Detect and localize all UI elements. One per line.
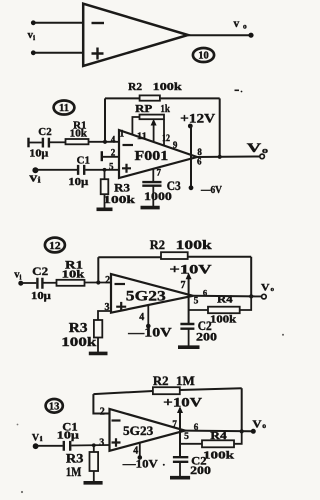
resistor R2 bbox=[140, 95, 160, 100]
svg-text:100k: 100k bbox=[153, 81, 183, 93]
supply -6V terminal dot bbox=[189, 185, 194, 190]
svg-text:7: 7 bbox=[172, 419, 177, 429]
svg-text:5: 5 bbox=[184, 432, 189, 442]
wire U3 output bbox=[193, 295, 262, 298]
svg-text:R4: R4 bbox=[210, 431, 227, 442]
node feedback-output junction bbox=[218, 155, 222, 159]
stray scan mark left margin bbox=[17, 424, 19, 426]
op-amp U3 bbox=[111, 274, 193, 313]
svg-text:7: 7 bbox=[157, 168, 162, 178]
svg-text:10μ: 10μ bbox=[31, 290, 52, 302]
node R3 junction bbox=[92, 443, 96, 447]
stray scan dot after -10V bbox=[163, 464, 165, 466]
node vo terminal ring bbox=[260, 154, 265, 159]
wire feedback top bbox=[98, 256, 251, 258]
node vo terminal ring bbox=[262, 294, 267, 299]
wire feedback left vertical bbox=[104, 98, 106, 141]
figure number 13 bbox=[46, 399, 63, 413]
RP wiper arrowhead bbox=[151, 119, 157, 126]
svg-text:10μ: 10μ bbox=[68, 177, 88, 188]
svg-text:R2: R2 bbox=[128, 81, 142, 93]
svg-text:—10V: —10V bbox=[127, 325, 172, 340]
supply -10V terminal dot bbox=[146, 324, 151, 329]
wire feedback top bbox=[93, 388, 241, 394]
wire vi to C2 bbox=[21, 282, 37, 284]
wire U4 output bbox=[185, 430, 251, 433]
node vi terminal bbox=[33, 443, 39, 449]
svg-text:o: o bbox=[243, 22, 247, 31]
svg-text:RP: RP bbox=[135, 104, 152, 115]
svg-text:5: 5 bbox=[194, 297, 199, 307]
node feedback junction bbox=[96, 280, 100, 284]
ground of R3 bbox=[84, 481, 103, 485]
resistor R2 bbox=[161, 252, 188, 259]
wire +12V / -6V supply vertical bbox=[190, 126, 192, 188]
stray scan mark near R2 bbox=[235, 89, 240, 91]
node vo terminal bbox=[251, 429, 256, 434]
wire vi to C1 bbox=[37, 445, 63, 447]
op-amp U4 bbox=[110, 409, 186, 451]
node output junction bbox=[240, 429, 244, 433]
wire C2 to ground bbox=[179, 462, 181, 477]
svg-text:1000: 1000 bbox=[144, 189, 172, 203]
svg-text:o: o bbox=[262, 422, 266, 430]
wire R4 branch left bbox=[180, 443, 202, 445]
resistor R1 bbox=[57, 280, 85, 286]
svg-text:R2: R2 bbox=[150, 237, 165, 252]
wire input to C2 bbox=[29, 142, 42, 144]
wire RP right end to U2 pin 12 bbox=[163, 119, 165, 145]
pin 2 terminal tick bbox=[101, 151, 103, 161]
node vo terminal bbox=[248, 33, 253, 38]
figure number 10 bbox=[193, 48, 214, 62]
node vi terminal bbox=[32, 167, 38, 173]
svg-text:10μ: 10μ bbox=[57, 431, 79, 442]
wire +10V to U4 pin7 and pin5 compensation vertical bbox=[179, 408, 181, 457]
wire feedback right vertical bbox=[241, 388, 243, 431]
svg-text:i: i bbox=[40, 435, 43, 443]
figure number 12 bbox=[45, 238, 65, 253]
svg-text:V: V bbox=[247, 140, 262, 155]
svg-text:+12V: +12V bbox=[180, 110, 216, 125]
wire U2 output bbox=[197, 156, 260, 159]
svg-text:100k: 100k bbox=[203, 449, 235, 461]
ground of C2 bbox=[170, 476, 190, 480]
svg-text:2: 2 bbox=[100, 406, 105, 417]
ground of C2 bbox=[178, 345, 200, 349]
wire U3 pin4 bbox=[147, 305, 149, 326]
resistor R4 bbox=[208, 307, 240, 314]
wire feedback top bbox=[105, 97, 220, 99]
wire R3 to ground bbox=[97, 338, 99, 353]
wire C2 to ground bbox=[188, 329, 190, 347]
svg-text:+10V: +10V bbox=[163, 396, 202, 410]
wire C3 to ground bbox=[152, 186, 154, 207]
wire pin 2 stub bbox=[102, 156, 119, 158]
wire R4 to output bbox=[234, 431, 242, 443]
wire C1 to U2 pin5 bbox=[85, 169, 119, 171]
op-amp U2 plus symbol bbox=[122, 164, 131, 173]
svg-text:10k: 10k bbox=[70, 129, 88, 140]
svg-text:3: 3 bbox=[99, 438, 104, 449]
potentiometer RP bbox=[140, 115, 165, 120]
ground of R3 bbox=[89, 352, 108, 356]
svg-text:—10V: —10V bbox=[122, 456, 158, 470]
+10V arrowhead bbox=[186, 273, 192, 280]
resistor R3 bbox=[90, 445, 99, 482]
svg-text:4: 4 bbox=[133, 446, 138, 457]
svg-text:11: 11 bbox=[59, 103, 69, 114]
wire feedback right vertical bbox=[219, 98, 221, 156]
resistor R2 bbox=[153, 387, 180, 394]
svg-text:V: V bbox=[32, 434, 39, 444]
wire vi to U1 bottom input bbox=[33, 52, 83, 54]
svg-text:5G23: 5G23 bbox=[123, 424, 153, 438]
svg-text:C2: C2 bbox=[32, 266, 48, 278]
resistor R4 bbox=[202, 440, 234, 447]
svg-text:v: v bbox=[29, 170, 37, 185]
wire vi to U1 top input bbox=[33, 22, 83, 24]
capacitor C2 bbox=[173, 457, 188, 462]
wire feedback left vertical bbox=[97, 257, 99, 282]
svg-text:10: 10 bbox=[198, 51, 209, 62]
stray scan dot bottom left bbox=[21, 491, 23, 493]
supply -10V terminal dot bbox=[138, 455, 143, 460]
svg-text:R3: R3 bbox=[114, 181, 130, 195]
capacitor C1 bbox=[64, 441, 70, 451]
svg-text:10μ: 10μ bbox=[29, 149, 48, 160]
wire R1 to U2 pin4 bbox=[89, 141, 120, 143]
svg-text:100k: 100k bbox=[61, 335, 96, 349]
svg-text:4: 4 bbox=[139, 312, 144, 323]
capacitor C2 output bbox=[180, 324, 194, 329]
wire R1 to U3 pin2 bbox=[85, 282, 112, 284]
svg-text:V: V bbox=[253, 419, 263, 430]
svg-text:1k: 1k bbox=[160, 104, 170, 115]
wire U3 pin3 to R3 bbox=[98, 311, 111, 320]
svg-text:o: o bbox=[262, 146, 268, 155]
wire C1 to U4 pin3 bbox=[71, 444, 109, 447]
wire feedback left vertical bbox=[93, 394, 109, 413]
wire RP left end to U2 pin 1 bbox=[132, 117, 139, 135]
op-amp U1 bbox=[83, 4, 188, 66]
svg-text:2: 2 bbox=[105, 275, 110, 286]
svg-text:+10V: +10V bbox=[169, 262, 212, 277]
capacitor C3 bbox=[142, 182, 161, 186]
wire vi to C1 bbox=[34, 169, 77, 171]
node vi top terminal bbox=[31, 20, 36, 25]
svg-text:100k: 100k bbox=[103, 194, 136, 206]
svg-text:V: V bbox=[261, 284, 270, 294]
node feedback-input junction bbox=[103, 140, 107, 144]
resistor R1 bbox=[66, 139, 89, 144]
capacitor C1 bbox=[78, 165, 84, 175]
wire C2 to R1 bbox=[44, 282, 57, 284]
svg-text:200: 200 bbox=[190, 465, 211, 477]
svg-text:100k: 100k bbox=[210, 315, 236, 326]
node R3 junction bbox=[103, 168, 107, 172]
op-amp U1 non-inverting input symbol bbox=[92, 48, 104, 60]
svg-text:v: v bbox=[234, 18, 240, 30]
wire +10V to U3 pin7 and pin5 compensation vertical bbox=[188, 275, 190, 324]
stray scan dot right margin bbox=[282, 334, 284, 336]
svg-text:1M: 1M bbox=[176, 374, 195, 388]
+10V arrowhead bbox=[177, 406, 183, 413]
stray scan dot bbox=[241, 91, 243, 93]
svg-text:1: 1 bbox=[120, 129, 125, 139]
svg-text:C2: C2 bbox=[38, 126, 52, 138]
ground of R3 bbox=[97, 208, 113, 212]
wire R4 branch left bbox=[189, 309, 208, 311]
op-amp U2 bbox=[119, 130, 197, 178]
svg-text:7: 7 bbox=[181, 280, 186, 291]
wire R4 to output bbox=[240, 296, 252, 310]
wire U2 pin7 bbox=[152, 169, 154, 182]
ground of C3 bbox=[141, 206, 160, 210]
svg-text:13: 13 bbox=[49, 401, 60, 412]
capacitor C2 input bbox=[37, 278, 42, 289]
wire feedback right vertical bbox=[250, 257, 252, 297]
capacitor C2 bbox=[43, 138, 49, 148]
input terminal tick bbox=[27, 138, 29, 148]
wire U1 output bbox=[188, 34, 251, 36]
op-amp U2 minus symbol bbox=[123, 144, 134, 146]
svg-text:12: 12 bbox=[49, 241, 61, 252]
supply +12V terminal dot bbox=[188, 124, 193, 129]
svg-text:9: 9 bbox=[173, 140, 178, 150]
op-amp U3 minus symbol bbox=[115, 283, 126, 285]
svg-text:1M: 1M bbox=[66, 464, 81, 479]
resistor R3 bbox=[94, 320, 102, 338]
svg-text:o: o bbox=[271, 286, 275, 293]
wire C2 to R1 bbox=[50, 141, 66, 143]
op-amp U4 minus symbol bbox=[112, 419, 121, 421]
svg-text:11: 11 bbox=[137, 131, 147, 141]
wire U4 pin4 bbox=[139, 443, 141, 457]
svg-text:—6V: —6V bbox=[200, 184, 222, 196]
op-amp U4 plus symbol bbox=[112, 438, 121, 447]
resistor R3 bbox=[101, 170, 109, 209]
figure number 11 bbox=[54, 101, 75, 115]
op-amp U3 plus symbol bbox=[116, 302, 126, 312]
node output junction bbox=[249, 294, 253, 298]
wire RP wiper to U2 pin 11 bbox=[153, 121, 155, 142]
svg-text:C1: C1 bbox=[77, 156, 90, 167]
node vi bottom terminal bbox=[31, 50, 36, 55]
svg-text:F001: F001 bbox=[135, 149, 169, 164]
svg-text:100k: 100k bbox=[176, 237, 213, 252]
svg-text:200: 200 bbox=[196, 330, 217, 344]
svg-text:R3: R3 bbox=[69, 320, 88, 335]
op-amp U1 inverting input symbol bbox=[92, 22, 105, 24]
svg-text:R2: R2 bbox=[153, 374, 169, 388]
svg-text:5G23: 5G23 bbox=[126, 289, 166, 305]
svg-text:4: 4 bbox=[111, 135, 116, 145]
svg-text:10k: 10k bbox=[62, 270, 85, 281]
svg-text:12: 12 bbox=[162, 133, 170, 143]
node vi terminal bbox=[18, 281, 23, 286]
